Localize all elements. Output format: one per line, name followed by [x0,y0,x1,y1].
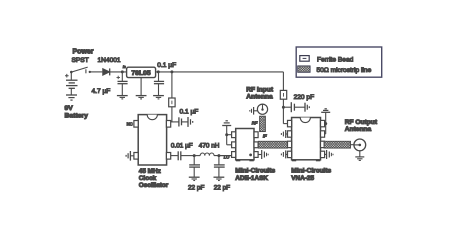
ground left of VNA pin 2 [281,130,287,138]
capacitor C1 4.7uF electrolytic [117,72,128,96]
ground left of VNA pin 4 [281,150,287,158]
diode label 1N4001 [98,57,121,64]
svg-text:NC: NC [127,121,133,126]
svg-text:22 pF: 22 pF [188,184,204,191]
capacitor C6 22pF [214,156,225,177]
microstrip IF mixer to VNA-25 [258,141,287,148]
label 0.01 uF [171,142,193,149]
microstrip VNA output [324,141,351,148]
ground below C2 [153,96,164,99]
pin label IF [263,133,267,138]
ground left of input antenna [250,107,258,115]
label Power [73,49,94,56]
svg-text:Oscillator: Oscillator [139,182,169,189]
label Mini-Circuits ADE-1ASK [235,167,275,182]
svg-text:0.1 µF: 0.1 µF [180,109,199,116]
svg-text:0.1 µF: 0.1 µF [157,62,176,69]
capacitor C4 0.01uF [171,151,194,160]
capacitor C2 0.1uF at regulator output [154,72,164,96]
svg-text:22 pF: 22 pF [214,184,230,191]
label SPST [72,57,89,64]
svg-text:50Ω microstrip line: 50Ω microstrip line [317,67,372,74]
ferrite bead FB2 on amplifier supply [280,72,286,124]
regulator U1 78L05 [127,67,156,77]
label 4.7 uF [92,88,111,95]
svg-text:VNA-25: VNA-25 [291,175,314,182]
ground below battery [66,95,77,100]
legend label Ferrite Bead [317,56,354,63]
svg-text:Antenna: Antenna [345,126,372,133]
antenna RF input [257,104,267,114]
svg-text:1N4001: 1N4001 [98,57,121,64]
diode D1 1N4001 [103,68,127,75]
label 22 pF second [214,184,230,191]
capacitor C7 at mixer pin with ground [258,150,268,159]
label 9V Battery [65,105,89,119]
microstrip from input antenna to mixer RF pin [260,116,266,131]
ground right of C3 [188,117,193,127]
legend ferrite bead symbol [300,56,309,62]
ground below C5 [189,177,200,180]
label 22 pF [188,184,204,191]
amplifier U4 VNA-25 [288,118,325,162]
ground below C1 [117,96,128,99]
svg-text:470 nH: 470 nH [199,142,220,149]
svg-text:RF: RF [252,121,258,126]
svg-text:4.7 µF: 4.7 µF [92,88,111,95]
svg-text:ADE-1ASK: ADE-1ASK [235,175,268,182]
svg-text:RF Input: RF Input [246,86,274,93]
label Mini-Circuits VNA-25 [291,167,331,182]
ground right of C8 [305,103,309,112]
mixer U3 ADE-1ASK [232,129,259,162]
capacitor C5 22pF [189,156,200,177]
svg-text:9V: 9V [65,105,74,112]
inductor L1 470 nH [194,153,232,156]
legend microstrip symbol [298,66,310,72]
label 220 pF [294,94,315,101]
switch S1 SPST [70,67,102,73]
label 45 MHz Clock Oscillator [139,168,169,189]
node junction at regulator input [121,70,124,73]
ground below regulator U1 [136,78,147,99]
svg-text:Ferrite Bead: Ferrite Bead [317,56,354,63]
label 470 nH [199,142,220,149]
pin label LO [224,155,230,160]
svg-text:Mini-Circuits: Mini-Circuits [291,167,331,174]
oscillator U2 45 MHz [134,115,171,165]
wire supply into VNA pin 1 [283,123,287,125]
ground net left of mixer [222,121,231,145]
node C5 tap [193,154,196,157]
svg-text:In: In [123,65,126,69]
svg-text:220 pF: 220 pF [294,94,315,101]
ground left of oscillator [126,151,134,161]
node regulator output [157,70,160,73]
svg-text:78L05: 78L05 [131,70,150,77]
pin label NC [127,121,133,126]
legend label 50ohm microstrip line [317,67,372,74]
capacitor C3 0.1uF at oscillator [171,117,188,126]
ground below output antenna [355,157,364,161]
pin label In [123,65,126,69]
label RF Output Antenna [345,119,378,133]
capacitor C9 at VNA pin with ground [325,150,333,159]
node C6 tap [217,154,220,157]
wire supply rail [156,71,284,73]
svg-text:SPST: SPST [72,57,89,64]
svg-text:IF: IF [263,133,267,138]
antenna RF output [351,139,366,157]
ferrite bead FB1 on oscillator supply [169,72,175,122]
ground below C6 [214,177,225,180]
wire LO into mixer [219,155,232,157]
ground net right of VNA [321,109,330,134]
svg-text:Battery: Battery [65,112,89,119]
svg-text:RF Output: RF Output [345,119,378,126]
label 0.1 uF oscillator [180,109,199,116]
svg-text:Power: Power [73,49,94,56]
battery B1 9V [65,72,78,95]
capacitor C8 220 pF [283,102,304,112]
legend box [296,47,382,77]
svg-text:Mini-Circuits: Mini-Circuits [235,167,275,174]
node oscillator supply tap [170,70,173,73]
label 0.1 uF [157,62,176,69]
node 220pF tap [282,106,285,109]
svg-text:0.01 µF: 0.01 µF [171,142,193,149]
pin label RF [252,121,258,126]
label RF Input Antenna [246,86,274,100]
svg-text:Antenna: Antenna [246,94,273,101]
